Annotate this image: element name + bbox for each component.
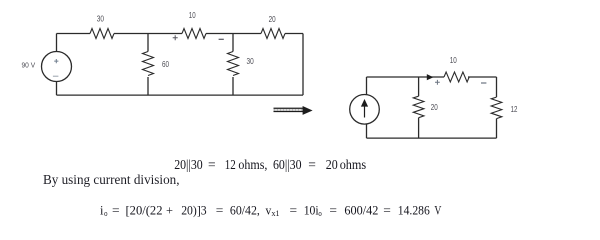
svg-text:10i: 10i	[304, 203, 320, 217]
wire node C vertical upper (20 ohm branch)	[418, 77, 420, 96]
svg-text:=: =	[208, 157, 216, 172]
svg-text:=: =	[329, 203, 337, 217]
label 90 V	[22, 60, 36, 69]
svg-text:x1: x1	[272, 209, 280, 218]
minus sign polarity of 10 ohm	[219, 38, 224, 40]
equation line 1	[174, 157, 366, 172]
svg-text:20: 20	[431, 103, 438, 112]
wire top: R30 to R10	[114, 33, 182, 35]
wire bottom right circuit	[367, 137, 497, 139]
resistor R 20 ohm top-right	[261, 29, 285, 39]
svg-text:60: 60	[162, 60, 169, 69]
wire node C vertical lower	[418, 118, 420, 138]
svg-text:30: 30	[97, 14, 105, 23]
wire left branch top	[56, 34, 58, 52]
svg-text:12: 12	[511, 105, 518, 114]
wire bottom left circuit	[57, 94, 304, 96]
svg-text:o: o	[104, 209, 107, 218]
resistor R 10 ohm top-middle	[182, 29, 206, 39]
label 60	[162, 60, 169, 69]
plus sign polarity of 10 ohm right circuit	[435, 80, 440, 85]
wire node B vertical upper	[232, 34, 234, 52]
svg-text:600/42: 600/42	[344, 203, 378, 217]
svg-text:60||30: 60||30	[273, 157, 302, 172]
resistor R 10 ohm right circuit	[444, 72, 469, 82]
svg-text:20: 20	[326, 157, 338, 172]
svg-text:10: 10	[450, 56, 457, 65]
wire right vertical upper (12 ohm branch)	[496, 77, 498, 97]
wire left branch bottom	[56, 82, 58, 96]
label 12	[511, 105, 518, 114]
svg-text:=: =	[290, 203, 298, 217]
current source I1	[350, 95, 380, 125]
svg-text:o: o	[318, 209, 321, 218]
wire right vertical	[302, 34, 304, 96]
plus sign polarity of 10 ohm	[173, 35, 178, 40]
svg-text:20||30: 20||30	[174, 157, 203, 172]
wire top: source to R30	[57, 33, 91, 35]
wire top: R20 to right corner	[285, 33, 303, 35]
wire right vertical lower	[496, 119, 498, 139]
svg-text:By using current division,: By using current division,	[43, 172, 180, 187]
resistor R 60 ohm vertical	[143, 52, 154, 76]
label 10 right circuit	[450, 56, 457, 65]
svg-text:ohms,: ohms,	[238, 157, 267, 172]
current direction arrowhead	[427, 74, 434, 80]
label 20	[431, 103, 438, 112]
wire node A vertical lower	[147, 77, 149, 95]
wire top: R10 to right corner right circuit	[468, 76, 497, 78]
svg-text:30: 30	[247, 57, 255, 66]
svg-text:=: =	[216, 203, 224, 217]
label 20	[269, 15, 276, 24]
wire current source bottom	[366, 124, 368, 138]
label 10	[189, 11, 196, 20]
resistor R 30 ohm top-left	[90, 29, 114, 39]
wire current source top	[366, 77, 368, 95]
voltage source V1 90V	[42, 52, 72, 82]
svg-text:20)]3: 20)]3	[181, 203, 206, 217]
label 30 vertical	[247, 57, 255, 66]
svg-text:=: =	[112, 203, 120, 217]
text line: By using current division	[43, 172, 180, 187]
wire node A vertical upper	[147, 34, 149, 52]
implication arrow	[274, 106, 313, 115]
svg-text:=: =	[383, 203, 391, 217]
svg-text:[20/(22: [20/(22	[126, 203, 163, 217]
svg-text:20: 20	[269, 15, 276, 24]
label 30	[97, 14, 105, 23]
resistor R 30 ohm vertical	[228, 52, 239, 76]
svg-text:+: +	[166, 203, 173, 217]
svg-text:60/42,: 60/42,	[230, 203, 260, 217]
svg-text:12: 12	[225, 157, 236, 172]
wire top: R10 to R20	[206, 33, 261, 35]
wire node B vertical lower	[232, 77, 234, 95]
svg-text:V: V	[434, 203, 441, 217]
svg-text:ohms: ohms	[340, 157, 367, 172]
resistor R 12 ohm vertical	[491, 97, 502, 118]
minus sign polarity of 10 ohm right circuit	[481, 82, 486, 84]
svg-text:10: 10	[189, 11, 196, 20]
svg-text:14.286: 14.286	[398, 203, 430, 217]
equation line 2	[100, 203, 441, 218]
resistor R 20 ohm vertical	[413, 96, 424, 117]
svg-text:90 V: 90 V	[22, 60, 36, 69]
wire top right circuit: source to R10	[367, 76, 445, 78]
svg-text:=: =	[308, 157, 316, 172]
